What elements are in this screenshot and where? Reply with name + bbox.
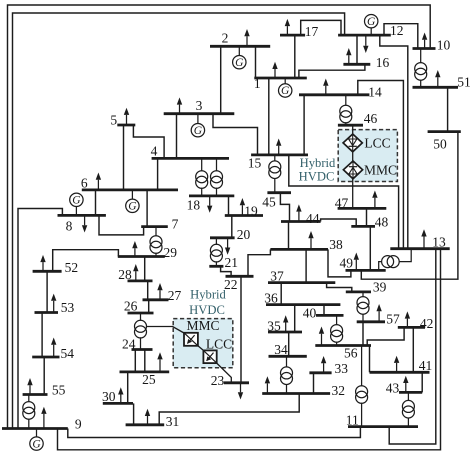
svg-text:31: 31	[166, 414, 180, 429]
svg-text:51: 51	[457, 74, 471, 89]
svg-text:36: 36	[264, 291, 278, 306]
svg-text:G: G	[281, 85, 290, 97]
svg-text:18: 18	[187, 198, 201, 213]
svg-text:3: 3	[196, 98, 203, 113]
svg-text:11: 11	[346, 413, 359, 428]
svg-text:21: 21	[224, 255, 238, 270]
svg-text:37: 37	[270, 269, 284, 284]
svg-text:27: 27	[168, 288, 182, 303]
svg-text:30: 30	[102, 389, 116, 404]
svg-text:47: 47	[335, 196, 349, 211]
svg-text:23: 23	[211, 373, 225, 388]
svg-text:26: 26	[124, 299, 138, 314]
svg-text:1: 1	[254, 76, 261, 91]
svg-text:34: 34	[274, 342, 288, 357]
svg-text:39: 39	[373, 280, 387, 295]
svg-text:28: 28	[118, 267, 132, 282]
svg-text:48: 48	[375, 215, 389, 230]
svg-text:49: 49	[339, 256, 353, 271]
svg-text:42: 42	[420, 316, 434, 331]
svg-text:LCC: LCC	[364, 136, 390, 151]
svg-text:G: G	[128, 201, 137, 213]
svg-text:HVDC: HVDC	[299, 169, 335, 183]
svg-text:4: 4	[151, 144, 158, 159]
svg-text:MMC: MMC	[186, 318, 219, 333]
svg-text:19: 19	[244, 204, 258, 219]
svg-text:HVDC: HVDC	[189, 303, 225, 317]
svg-text:35: 35	[267, 319, 281, 334]
svg-text:16: 16	[376, 55, 390, 70]
svg-text:14: 14	[368, 85, 382, 100]
svg-text:57: 57	[386, 312, 400, 327]
svg-text:G: G	[32, 438, 41, 450]
svg-text:56: 56	[344, 346, 358, 361]
svg-text:40: 40	[303, 306, 317, 321]
svg-text:13: 13	[432, 235, 446, 250]
svg-text:12: 12	[390, 23, 404, 38]
svg-text:55: 55	[52, 382, 66, 397]
svg-text:G: G	[235, 57, 244, 69]
svg-text:43: 43	[386, 381, 400, 396]
svg-text:7: 7	[172, 217, 179, 232]
svg-text:6: 6	[81, 176, 88, 191]
svg-text:10: 10	[437, 38, 451, 53]
svg-text:33: 33	[335, 361, 349, 376]
svg-text:46: 46	[364, 111, 378, 126]
svg-text:25: 25	[142, 372, 156, 387]
svg-text:52: 52	[65, 260, 79, 275]
svg-text:Hybrid: Hybrid	[300, 156, 336, 170]
svg-text:9: 9	[75, 416, 82, 431]
svg-text:32: 32	[332, 383, 346, 398]
svg-text:45: 45	[262, 194, 276, 209]
svg-text:22: 22	[224, 277, 238, 292]
svg-text:24: 24	[122, 337, 136, 352]
svg-text:8: 8	[66, 219, 73, 234]
svg-text:44: 44	[306, 211, 320, 226]
svg-text:Hybrid: Hybrid	[190, 288, 226, 302]
svg-text:G: G	[72, 195, 81, 207]
svg-text:LCC: LCC	[206, 337, 232, 352]
svg-text:29: 29	[163, 245, 177, 260]
svg-text:5: 5	[110, 113, 117, 128]
svg-text:G: G	[194, 125, 203, 137]
svg-text:50: 50	[433, 137, 447, 152]
svg-text:53: 53	[61, 300, 75, 315]
svg-text:15: 15	[248, 156, 262, 171]
svg-text:MMC: MMC	[364, 163, 397, 178]
svg-text:38: 38	[329, 237, 343, 252]
svg-text:2: 2	[222, 31, 229, 46]
svg-text:G: G	[367, 16, 376, 28]
svg-text:41: 41	[419, 358, 433, 373]
svg-text:54: 54	[61, 346, 75, 361]
svg-text:17: 17	[305, 24, 319, 39]
svg-text:20: 20	[237, 227, 251, 242]
